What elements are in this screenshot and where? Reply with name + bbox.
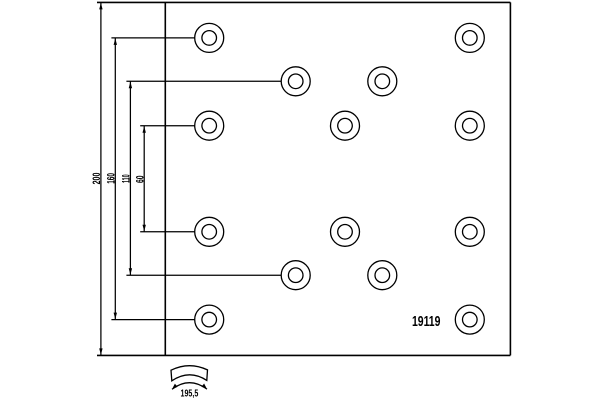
arrow 60 bottom xyxy=(143,225,146,232)
svg-text:60: 60 xyxy=(134,176,146,184)
svg-text:160: 160 xyxy=(106,173,118,184)
hole H7 (470,126) xyxy=(455,111,484,140)
arrow 60 top xyxy=(143,126,146,133)
plate outline bottom edge (with left extension) xyxy=(97,354,510,356)
dimension arc 195,5 xyxy=(172,383,207,390)
svg-text:19119: 19119 xyxy=(412,314,441,330)
svg-text:110: 110 xyxy=(121,174,133,183)
arrow 200 bottom xyxy=(99,348,102,355)
leader row E xyxy=(126,274,281,276)
arrow 110 top xyxy=(129,82,132,89)
dimension line 60 xyxy=(143,126,145,232)
dimension line 160 xyxy=(114,38,116,320)
arrow 110 bottom xyxy=(129,268,132,275)
hole H2 (470,38) xyxy=(455,23,484,52)
plate outline right edge xyxy=(509,2,511,355)
leader row D xyxy=(140,231,195,233)
hole H3 (296,81) xyxy=(281,67,310,96)
arc arrow left xyxy=(172,384,178,390)
svg-text:195,5: 195,5 xyxy=(181,388,199,399)
hole H11 (296,275) xyxy=(281,261,310,290)
arrow 200 top xyxy=(99,3,102,9)
leader row A xyxy=(111,37,194,39)
hole H8 (209,231) xyxy=(195,217,224,246)
svg-text:200: 200 xyxy=(91,173,103,185)
hole H1 (209,38) xyxy=(195,23,224,52)
dimension line 110 xyxy=(129,81,131,275)
leader row B xyxy=(126,80,281,82)
arc arrow right xyxy=(202,384,208,390)
leader row C xyxy=(140,125,195,127)
arrow 160 top xyxy=(114,38,117,45)
arrow 160 bottom xyxy=(114,313,117,320)
hole H14 (470,319) xyxy=(455,305,484,334)
hole H9 (345,231) xyxy=(331,217,360,246)
plate outline top edge (with left extension) xyxy=(97,1,510,3)
hole H4 (382,81) xyxy=(368,67,397,96)
leader row F xyxy=(111,319,194,321)
dimension line 200 xyxy=(100,2,102,355)
hole H10 (470,231) xyxy=(455,217,484,246)
hole H13 (209,319) xyxy=(195,305,224,334)
hole H6 (345,126) xyxy=(331,111,360,140)
plate outline left edge xyxy=(164,2,166,355)
hole H5 (209,126) xyxy=(195,111,224,140)
hole H12 (382,275) xyxy=(368,261,397,290)
lining cross-section band xyxy=(171,366,208,381)
